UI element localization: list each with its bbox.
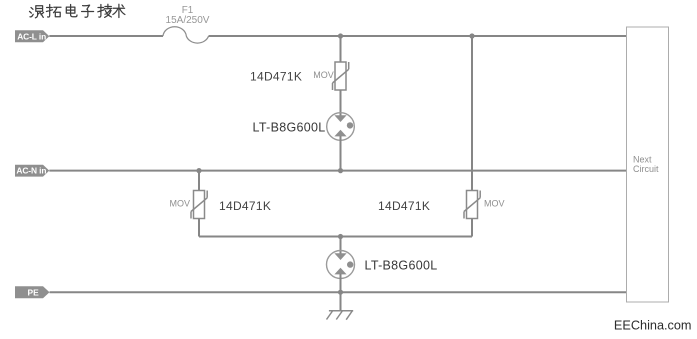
wire RV3 to rail (471, 219, 473, 237)
net flag AC-L in (15, 30, 49, 42)
wire AC-L right segment (209, 35, 627, 37)
wire G1 to AC-N (340, 136, 342, 171)
svg-text:EEChina.com: EEChina.com (614, 319, 692, 333)
wire AC-N (49, 170, 626, 172)
svg-text:14D471K: 14D471K (219, 199, 271, 213)
svg-text:MOV: MOV (313, 70, 334, 80)
svg-text:Circuit: Circuit (633, 164, 659, 174)
varistor RV1 (MOV 14D471K) (333, 62, 349, 90)
svg-text:Next: Next (633, 154, 652, 164)
svg-text:AC-L in: AC-L in (17, 31, 46, 41)
wire AC-N to RV2 (198, 171, 200, 191)
ground (327, 311, 354, 320)
svg-text:LT-B8G600L: LT-B8G600L (253, 120, 326, 134)
wire common rail (199, 236, 472, 238)
next circuit block (627, 27, 669, 302)
wire RV2 to rail (198, 219, 200, 237)
junction on rail at G2 (338, 234, 343, 239)
svg-text:14D471K: 14D471K (250, 70, 302, 84)
varistor RV3 (MOV 14D471K) (464, 191, 480, 219)
junction on AC-L at varistor RV1 branch (338, 33, 343, 38)
junction on AC-L at varistor RV3 branch (469, 33, 474, 38)
wire RV1 to GDT G1 (340, 90, 342, 117)
junction on AC-N at G1 (338, 168, 343, 173)
wire G2 to PE (340, 274, 342, 292)
net flag AC-N in (15, 165, 49, 177)
svg-text:AC-N in: AC-N in (16, 166, 46, 176)
wire rail to G2 (340, 237, 342, 256)
fuse F1 (163, 27, 209, 43)
wire AC-L to RV3 (crosses AC-N) (471, 36, 473, 191)
svg-text:14D471K: 14D471K (378, 199, 430, 213)
net flag PE (15, 286, 50, 298)
junction on AC-N at varistor RV2 branch (196, 168, 201, 173)
wire AC-L to RV1 (340, 36, 342, 62)
svg-text:MOV: MOV (169, 199, 190, 209)
logo text 浪拓电子技术 (30, 4, 125, 18)
svg-text:PE: PE (28, 287, 40, 297)
gas discharge tube G2 (LT-B8G600L) (327, 251, 355, 279)
varistor RV2 (MOV 14D471K) (191, 191, 207, 219)
wire PE to ground (340, 292, 342, 311)
wire PE (50, 291, 627, 293)
svg-text:15A/250V: 15A/250V (166, 15, 210, 26)
wire AC-L left segment (49, 35, 163, 37)
gas discharge tube G1 (LT-B8G600L) (327, 113, 355, 141)
junction on PE at ground (338, 290, 343, 295)
svg-text:MOV: MOV (484, 199, 505, 209)
svg-text:LT-B8G600L: LT-B8G600L (365, 258, 438, 272)
